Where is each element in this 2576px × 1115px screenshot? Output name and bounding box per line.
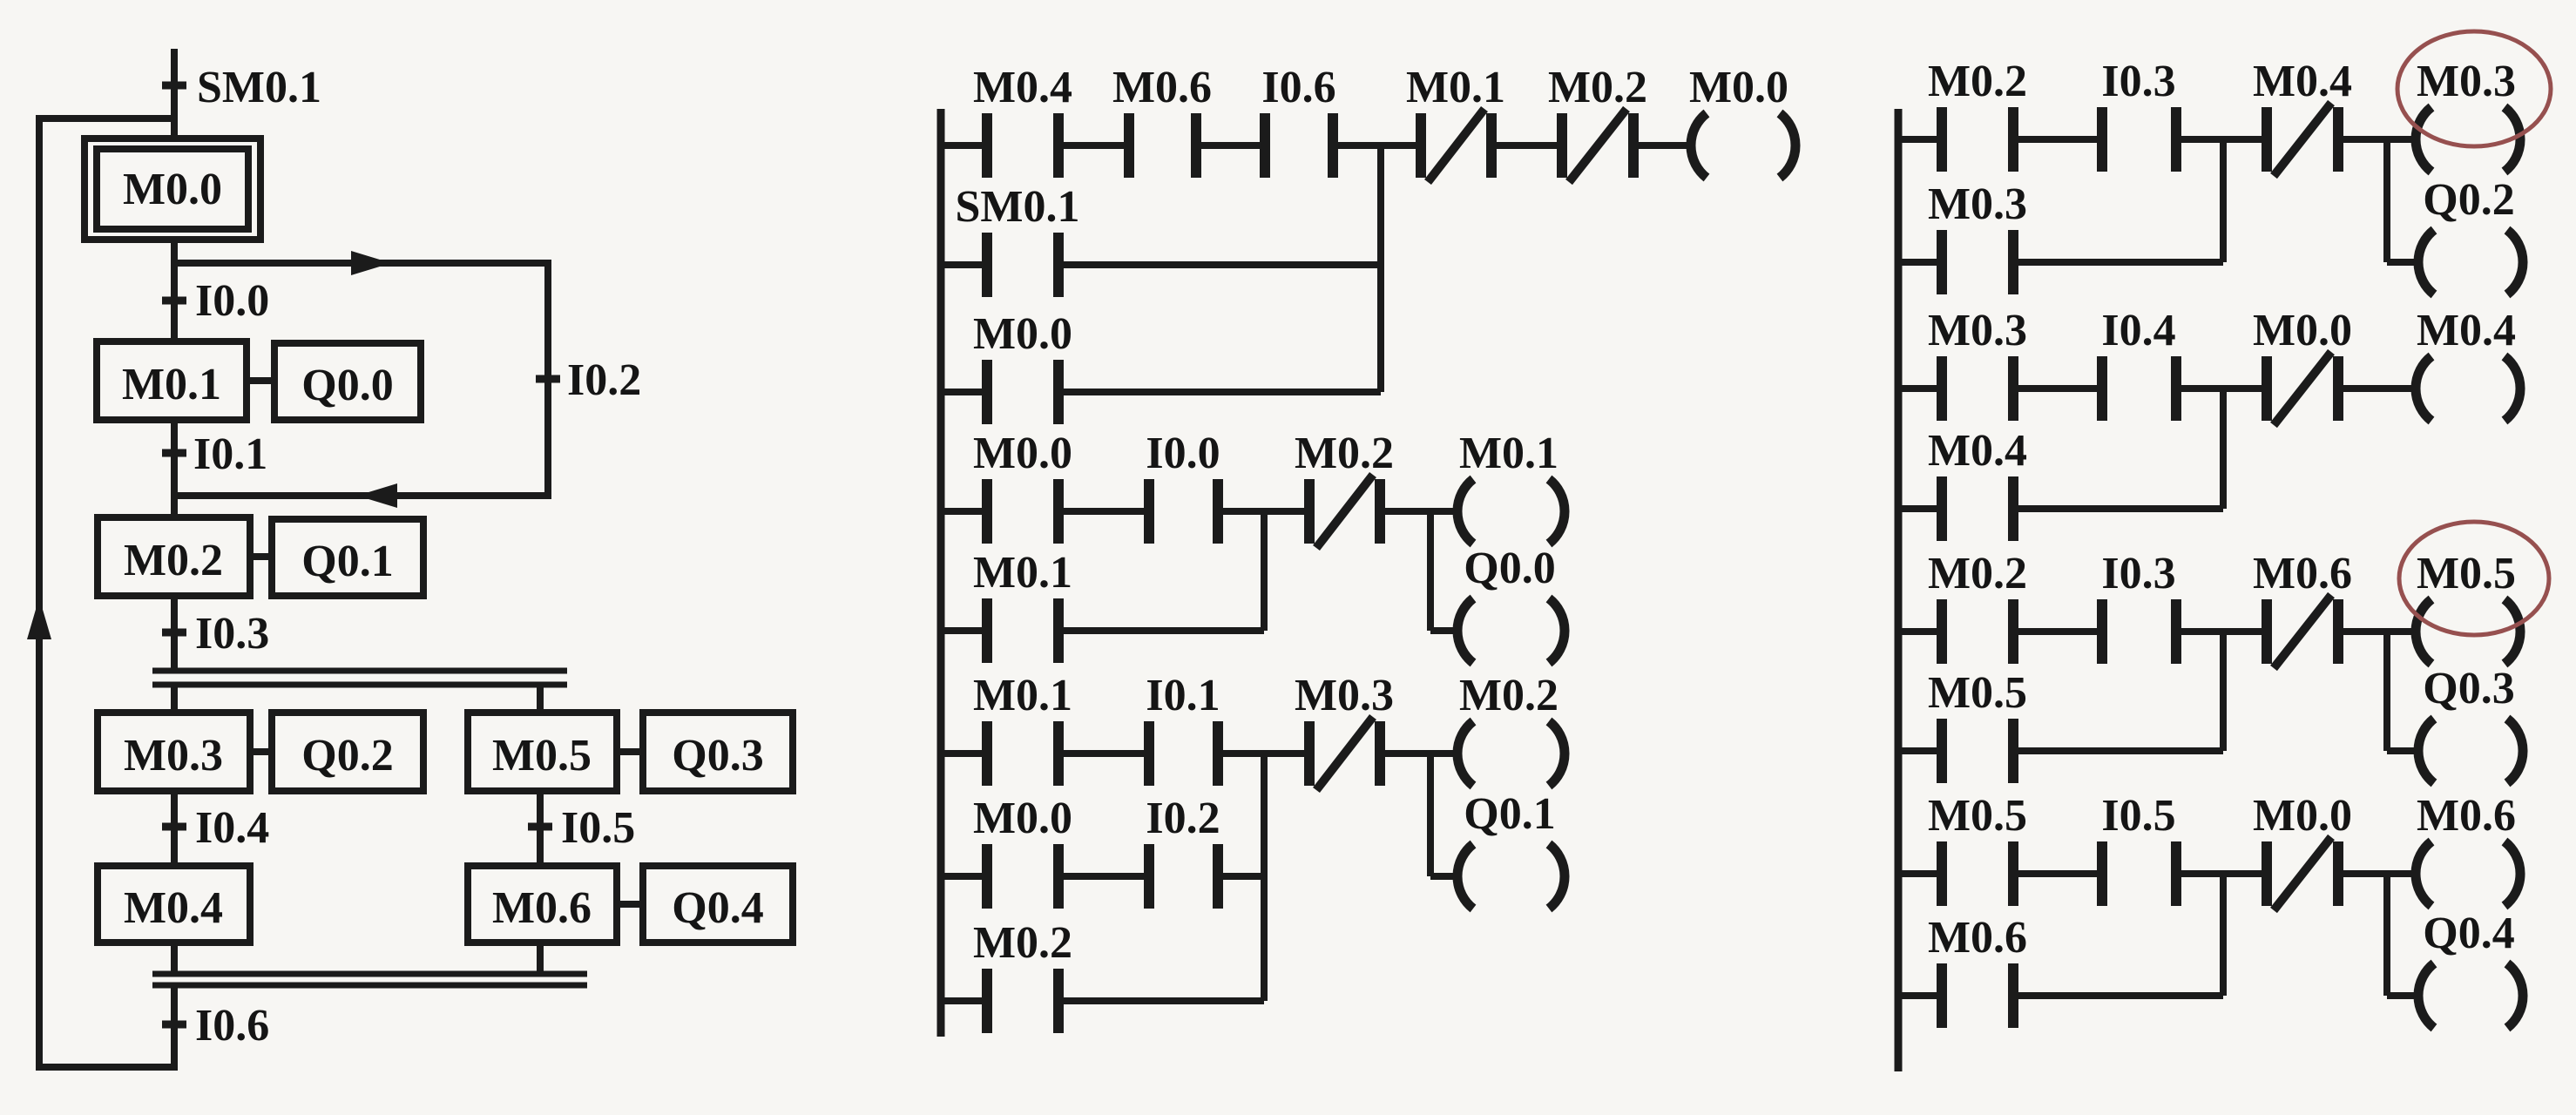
svg-text:Q0.2: Q0.2 — [2423, 175, 2514, 225]
svg-text:M0.1: M0.1 — [1406, 63, 1505, 112]
transition I0.4 — [162, 803, 269, 853]
parallel split double line — [152, 671, 567, 685]
wire: Q0.4 coil stub — [2387, 992, 2421, 999]
action box Q0.0 — [274, 343, 421, 420]
wire rung1 segment a — [941, 142, 987, 149]
wire: Q0.3 coil stub — [2387, 747, 2421, 754]
svg-text:M0.1: M0.1 — [973, 548, 1072, 598]
wire M0.5-rung segment c — [2176, 628, 2267, 635]
svg-text:M0.4: M0.4 — [1928, 426, 2027, 476]
node: rung1 parallel junction — [1377, 145, 1384, 392]
coil Q0.0 — [1457, 544, 1565, 663]
contact I0.2 (NO) — [1146, 794, 1220, 909]
contact M0.2 (NO) — [1928, 549, 2027, 664]
svg-text:M0.3: M0.3 — [1928, 179, 2027, 229]
contact M0.3 (NO, branch) — [1928, 179, 2027, 294]
wire rung1 segment b — [1058, 142, 1129, 149]
transition I0.3 — [162, 609, 269, 659]
wire M0.6-rung segment c — [2176, 870, 2267, 877]
svg-text:SM0.1: SM0.1 — [956, 182, 1080, 232]
wire M0.4 branch — [2013, 505, 2223, 512]
svg-text:Q0.4: Q0.4 — [672, 883, 763, 933]
wire: feedback bottom horizontal — [39, 1064, 174, 1071]
wire rung3 segment c — [1218, 750, 1309, 757]
svg-text:I0.3: I0.3 — [2101, 57, 2175, 106]
wire rung2 segment b — [1058, 508, 1149, 515]
svg-text:Q0.4: Q0.4 — [2423, 909, 2514, 958]
svg-text:I0.1: I0.1 — [1146, 671, 1220, 720]
action box Q0.3 — [643, 713, 793, 791]
transition I0.5 — [528, 803, 635, 853]
wire: M0.3 to M0.4 — [171, 791, 178, 866]
contact M0.1 (NO, rung3) — [973, 671, 1072, 786]
wire: rung3 coil branch drop — [1427, 753, 1434, 876]
svg-text:M0.5: M0.5 — [1928, 668, 2027, 718]
contact M0.6 (NO) — [1112, 63, 1212, 178]
wire: M0.5 to M0.6 — [537, 791, 544, 866]
action box Q0.2 — [272, 713, 423, 791]
svg-text:I0.2: I0.2 — [1146, 794, 1220, 843]
step M0.1 — [97, 341, 247, 420]
svg-text:M0.6: M0.6 — [2253, 549, 2352, 598]
wire: M0.1 to M0.2 — [171, 420, 178, 517]
wire M0.6-rung segment b — [2013, 870, 2102, 877]
wire SM0.1 branch stub — [941, 261, 987, 268]
wire M0.5-rung segment d — [2338, 628, 2417, 635]
wire: M0.0 to I0.0 — [171, 240, 178, 341]
transition I0.2 — [536, 355, 641, 405]
wire M0.3-rung segment c — [2176, 136, 2267, 143]
svg-text:I0.5: I0.5 — [2101, 791, 2175, 841]
svg-text:M0.0: M0.0 — [1689, 63, 1788, 112]
wire rung1 segment f — [1633, 142, 1693, 149]
wire M0.1 branch stub — [941, 627, 987, 634]
svg-text:M0.6: M0.6 — [1112, 63, 1212, 112]
contact M0.0 (NC) — [2253, 791, 2352, 910]
svg-text:I0.2: I0.2 — [567, 355, 641, 405]
contact M0.1 (NC) — [1406, 63, 1505, 182]
wire SM0.1 branch — [1058, 261, 1381, 268]
wire M0.2 branch — [1058, 997, 1264, 1004]
svg-text:I0.6: I0.6 — [1261, 63, 1335, 112]
contact M0.3 (NC, rung3) — [1295, 671, 1394, 790]
wire: M0.4 to merge — [171, 943, 178, 974]
wire: M0.6 to Q0.4 connector — [617, 901, 643, 908]
svg-text:I0.6: I0.6 — [195, 1001, 269, 1051]
node: M0.5-rung junction — [2220, 632, 2227, 751]
contact I0.1 (NO) — [1146, 671, 1220, 786]
svg-text:M0.3: M0.3 — [1928, 306, 2027, 355]
step M0.2 — [98, 517, 250, 596]
branch line right with arrow — [174, 251, 548, 275]
wire M0.4 branch stub — [1898, 505, 1942, 512]
wire: Q0.1 coil stub — [1430, 873, 1460, 880]
svg-text:M0.1: M0.1 — [122, 360, 221, 409]
wire: M0.2 to Q0.1 connector — [250, 553, 272, 560]
wire: I0.2 branch vertical — [544, 260, 551, 499]
wire rung2 segment c — [1218, 508, 1309, 515]
wire: feedback top horizontal — [39, 115, 174, 1071]
svg-text:M0.1: M0.1 — [973, 671, 1072, 720]
node: M0.4-rung junction — [2220, 389, 2227, 509]
svg-text:SM0.1: SM0.1 — [197, 63, 321, 112]
svg-text:I0.5: I0.5 — [561, 803, 635, 853]
step M0.0 (initial step, double box) — [85, 139, 260, 240]
svg-text:I0.1: I0.1 — [193, 429, 267, 479]
wire: split to M0.5 — [537, 685, 544, 713]
contact I0.0 (NO) — [1146, 429, 1220, 544]
node: rung3 parallel junction — [1261, 753, 1268, 1001]
svg-text:M0.0: M0.0 — [973, 309, 1072, 359]
wire: M0.5 coil branch drop — [2383, 632, 2390, 751]
wire M0.0-I0.2 branch end — [1218, 873, 1264, 880]
node: rung2 parallel junction — [1261, 511, 1268, 631]
wire M0.0-I0.2 branch stub — [941, 873, 987, 880]
svg-text:M0.0: M0.0 — [973, 794, 1072, 843]
contact M0.0 (NO, rung3 branch) — [973, 794, 1072, 909]
svg-text:Q0.0: Q0.0 — [1464, 544, 1555, 593]
svg-text:M0.6: M0.6 — [1928, 913, 2027, 963]
contact M0.2 (NC, rung2) — [1295, 429, 1394, 548]
wire M0.3-rung segment d — [2338, 136, 2417, 143]
svg-text:M0.0: M0.0 — [2253, 306, 2352, 355]
wire M0.6 branch stub — [1898, 992, 1942, 999]
svg-text:M0.3: M0.3 — [124, 731, 223, 780]
contact M0.3 (NO) — [1928, 306, 2027, 421]
svg-text:M0.0: M0.0 — [973, 429, 1072, 478]
contact M0.4 (NO, branch) — [1928, 426, 2027, 541]
svg-text:Q0.2: Q0.2 — [301, 731, 393, 780]
right power rail (right ladder) — [1895, 109, 1903, 1071]
svg-text:M0.0: M0.0 — [123, 165, 222, 214]
wire M0.1 branch — [1058, 627, 1264, 634]
wire rung3 segment a — [941, 750, 987, 757]
coil M0.4 — [2416, 306, 2520, 421]
wire: Q0.0 coil stub — [1430, 627, 1460, 634]
contact M0.4 (NC) — [2253, 57, 2352, 176]
transition I0.0 — [162, 276, 269, 326]
wire M0.4-rung segment b — [2013, 385, 2102, 392]
contact M0.2 (NO) — [1928, 57, 2027, 172]
contact I0.3 (NO) — [2101, 57, 2176, 172]
svg-text:Q0.1: Q0.1 — [301, 537, 393, 586]
contact SM0.1 (NO) — [956, 182, 1080, 297]
svg-text:M0.3: M0.3 — [2417, 57, 2516, 106]
contact M0.1 (NO, rung2 branch) — [973, 548, 1072, 663]
wire rung1 segment e — [1491, 142, 1562, 149]
svg-text:M0.2: M0.2 — [124, 536, 223, 585]
wire M0.0 branch — [1058, 389, 1381, 395]
svg-text:M0.2: M0.2 — [1459, 671, 1558, 720]
contact I0.5 (NO) — [2101, 791, 2176, 906]
wire M0.0-I0.2 branch mid — [1058, 873, 1149, 880]
wire M0.5-rung segment a — [1898, 628, 1942, 635]
svg-text:I0.0: I0.0 — [1146, 429, 1220, 478]
transition SM0.1 — [162, 63, 321, 112]
coil M0.5 — [2416, 549, 2520, 664]
svg-text:Q0.3: Q0.3 — [2423, 664, 2514, 713]
parallel merge double line — [152, 974, 587, 985]
coil Q0.3 — [2418, 664, 2523, 783]
action box Q0.1 — [272, 519, 423, 596]
svg-text:I0.4: I0.4 — [195, 803, 269, 853]
svg-text:M0.0: M0.0 — [2253, 791, 2352, 841]
svg-text:M0.4: M0.4 — [124, 883, 223, 933]
wire: split to M0.3 — [171, 685, 178, 713]
node: M0.6-rung junction — [2220, 874, 2227, 996]
contact M0.0 (NO, rung2) — [973, 429, 1072, 544]
wire M0.5 branch — [2013, 747, 2223, 754]
wire M0.5 branch stub — [1898, 747, 1942, 754]
wire: M0.1 to Q0.0 connector — [247, 377, 274, 384]
transition I0.6 — [162, 1001, 269, 1051]
wire: M0.6 coil branch drop — [2383, 874, 2390, 996]
svg-text:M0.2: M0.2 — [1295, 429, 1394, 478]
contact M0.4 (NO) — [973, 63, 1072, 178]
arrow up on feedback line — [27, 598, 51, 639]
wire rung2 segment a — [941, 508, 987, 515]
coil M0.0 — [1689, 63, 1795, 178]
contact M0.6 (NC) — [2253, 549, 2352, 668]
svg-text:M0.5: M0.5 — [2417, 549, 2516, 598]
contact I0.4 (NO) — [2101, 306, 2176, 421]
wire: M0.2 to split — [171, 596, 178, 671]
step M0.3 — [98, 713, 250, 791]
wire: Q0.2 coil stub — [2387, 259, 2421, 266]
wire M0.6 branch — [2013, 992, 2223, 999]
wire: SFC main line top segment — [171, 49, 178, 139]
wire rung1 segment d — [1333, 142, 1421, 149]
return line from I0.2 with arrow — [174, 483, 548, 508]
wire: rung2 coil branch drop — [1427, 511, 1434, 631]
contact M0.0 (NO, rung1 branch) — [973, 309, 1072, 424]
svg-text:I0.0: I0.0 — [195, 276, 269, 326]
coil M0.3 — [2416, 57, 2520, 172]
svg-text:M0.2: M0.2 — [1928, 57, 2027, 106]
wire: merge to bottom — [171, 985, 178, 1071]
svg-text:M0.2: M0.2 — [973, 918, 1072, 968]
svg-text:M0.6: M0.6 — [2417, 791, 2516, 841]
wire: M0.6 to merge — [537, 943, 544, 974]
wire M0.6-rung segment a — [1898, 870, 1942, 877]
wire rung3 segment b — [1058, 750, 1149, 757]
svg-text:M0.2: M0.2 — [1928, 549, 2027, 598]
svg-text:M0.4: M0.4 — [973, 63, 1072, 112]
coil M0.6 — [2416, 791, 2520, 906]
svg-text:I0.4: I0.4 — [2101, 306, 2175, 355]
wire M0.2 branch stub — [941, 997, 987, 1004]
wire M0.4-rung segment a — [1898, 385, 1942, 392]
svg-text:M0.4: M0.4 — [2417, 306, 2516, 355]
coil Q0.1 — [1457, 789, 1565, 909]
contact M0.2 (NO, rung3 branch) — [973, 918, 1072, 1033]
left power rail (middle ladder) — [937, 109, 945, 1037]
wire rung1 segment c — [1196, 142, 1265, 149]
node: M0.3-rung junction — [2220, 139, 2227, 262]
svg-text:M0.5: M0.5 — [492, 731, 592, 780]
red circle around M0.3 coil — [2397, 31, 2551, 146]
wire M0.4-rung segment c — [2176, 385, 2267, 392]
svg-text:M0.4: M0.4 — [2253, 57, 2352, 106]
wire: M0.5 to Q0.3 connector — [617, 748, 643, 755]
svg-text:Q0.1: Q0.1 — [1464, 789, 1555, 839]
action box Q0.4 — [643, 866, 793, 943]
contact I0.3 (NO) — [2101, 549, 2176, 664]
wire M0.3-rung segment a — [1898, 136, 1942, 143]
coil Q0.4 — [2418, 909, 2523, 1028]
coil M0.1 — [1457, 429, 1565, 544]
svg-text:M0.1: M0.1 — [1459, 429, 1558, 478]
step M0.5 — [468, 713, 617, 791]
wire M0.5-rung segment b — [2013, 628, 2102, 635]
red circle around M0.5 coil — [2399, 522, 2549, 635]
wire: M0.3 to Q0.2 connector — [250, 748, 272, 755]
contact M0.0 (NC) — [2253, 306, 2352, 425]
step M0.4 — [98, 866, 250, 943]
svg-text:Q0.3: Q0.3 — [672, 731, 763, 780]
contact M0.5 (NO, branch) — [1928, 668, 2027, 783]
contact I0.6 (NO) — [1261, 63, 1335, 178]
step M0.6 — [468, 866, 617, 943]
wire M0.3 branch — [2013, 259, 2223, 266]
wire M0.6-rung segment d — [2338, 870, 2417, 877]
wire M0.3-rung segment b — [2013, 136, 2102, 143]
wire: M0.3 coil branch drop — [2383, 139, 2390, 262]
coil Q0.2 — [2418, 175, 2523, 294]
svg-text:M0.5: M0.5 — [1928, 791, 2027, 841]
contact M0.6 (NO, branch) — [1928, 913, 2027, 1028]
svg-text:M0.3: M0.3 — [1295, 671, 1394, 720]
wire M0.0 branch stub — [941, 389, 987, 395]
wire M0.4-rung segment d — [2338, 385, 2417, 392]
coil M0.2 — [1457, 671, 1565, 786]
svg-text:I0.3: I0.3 — [2101, 549, 2175, 598]
svg-text:Q0.0: Q0.0 — [301, 361, 393, 410]
wire rung3 segment d — [1380, 750, 1459, 757]
wire M0.3 branch stub — [1898, 259, 1942, 266]
svg-text:M0.2: M0.2 — [1548, 63, 1647, 112]
transition I0.1 — [162, 429, 267, 479]
svg-text:M0.6: M0.6 — [492, 883, 592, 933]
wire rung2 segment d — [1380, 508, 1459, 515]
svg-text:I0.3: I0.3 — [195, 609, 269, 659]
contact M0.5 (NO) — [1928, 791, 2027, 906]
contact M0.2 (NC) — [1548, 63, 1647, 182]
